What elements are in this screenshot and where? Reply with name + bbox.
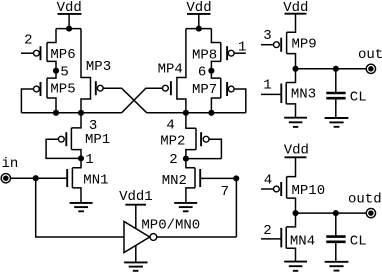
svg-text:MN4: MN4: [290, 233, 315, 249]
svg-text:MP6: MP6: [50, 47, 75, 63]
svg-text:MP10: MP10: [292, 183, 326, 199]
svg-text:1: 1: [238, 39, 246, 55]
svg-text:2: 2: [169, 152, 177, 168]
svg-text:CL: CL: [350, 89, 367, 105]
svg-text:Vdd: Vdd: [186, 0, 211, 16]
svg-text:1: 1: [85, 152, 93, 168]
svg-text:4: 4: [264, 172, 272, 188]
svg-text:in: in: [2, 156, 19, 172]
svg-text:CL: CL: [350, 233, 367, 249]
svg-text:5: 5: [60, 64, 68, 80]
svg-text:MP0/MN0: MP0/MN0: [141, 218, 200, 234]
svg-text:MP2: MP2: [160, 134, 185, 150]
svg-text:outd: outd: [348, 192, 382, 208]
svg-text:MP5: MP5: [50, 82, 75, 98]
svg-text:MN1: MN1: [83, 172, 108, 188]
svg-text:2: 2: [263, 223, 271, 239]
svg-text:4: 4: [166, 118, 174, 134]
svg-text:Vdd: Vdd: [283, 0, 308, 16]
svg-text:Vdd: Vdd: [284, 143, 309, 159]
svg-text:MP3: MP3: [86, 59, 111, 75]
svg-text:MN2: MN2: [162, 173, 187, 189]
svg-text:MP9: MP9: [292, 37, 317, 53]
svg-text:7: 7: [221, 184, 229, 200]
svg-text:3: 3: [89, 118, 97, 134]
svg-text:6: 6: [198, 65, 206, 81]
svg-text:out: out: [358, 47, 382, 63]
svg-text:3: 3: [263, 28, 271, 44]
svg-text:MN3: MN3: [291, 87, 316, 103]
svg-text:Vdd1: Vdd1: [119, 189, 153, 205]
svg-text:2: 2: [24, 33, 32, 49]
svg-text:Vdd: Vdd: [57, 0, 82, 16]
svg-text:MP4: MP4: [158, 61, 183, 77]
svg-text:MP8: MP8: [192, 48, 217, 64]
svg-text:MP7: MP7: [192, 82, 217, 98]
svg-text:1: 1: [263, 78, 271, 94]
svg-text:MP1: MP1: [85, 132, 110, 148]
